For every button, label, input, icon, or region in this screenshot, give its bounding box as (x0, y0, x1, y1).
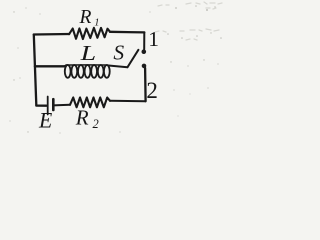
svg-text:2: 2 (93, 117, 99, 131)
wire bottom-right segment (110, 100, 146, 102)
battery E long plate (47, 97, 49, 115)
wire battery to R2 (53, 104, 70, 107)
wire bottom-left stub to battery (36, 104, 46, 106)
inductor L coil (65, 65, 110, 78)
contact node 2 (142, 64, 147, 69)
wire top-left segment (34, 33, 69, 36)
resistor R1 (69, 28, 110, 39)
paper noise speckles (9, 5, 221, 133)
svg-text:1: 1 (148, 27, 159, 51)
svg-text:E: E (38, 109, 52, 133)
contact node 1 (142, 49, 147, 54)
svg-text:2: 2 (146, 78, 158, 103)
wire from contact 2 down to bottom-right corner (144, 68, 147, 101)
svg-text:L: L (79, 41, 96, 65)
wire left vertical (34, 35, 37, 106)
wire middle-left segment (35, 65, 65, 67)
resistor R2 (70, 98, 110, 108)
wire middle-right lead to switch (110, 66, 128, 68)
switch S blade (128, 50, 139, 67)
svg-text:R: R (75, 106, 89, 130)
battery E short thick plate (52, 99, 55, 110)
svg-text:R: R (79, 7, 92, 28)
wire down to contact 1 (143, 32, 145, 49)
ghost bleed-through text top-right (155, 2, 222, 40)
wire top-right segment (110, 31, 144, 34)
svg-text:1: 1 (94, 18, 99, 29)
svg-text:S: S (113, 41, 124, 65)
